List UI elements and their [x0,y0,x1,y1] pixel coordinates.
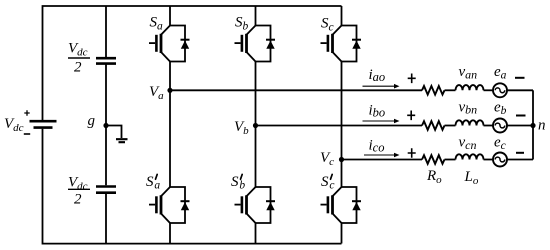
wire neutral rail [532,90,534,159]
svg-text:ea: ea [494,64,507,82]
svg-text:Sb: Sb [235,14,249,32]
wire [507,89,533,91]
svg-text:vcn: vcn [459,135,477,152]
wire leg c lower [341,223,343,244]
wire [484,159,494,161]
svg-text:Va: Va [149,84,164,102]
svg-text:S: S [321,174,329,190]
svg-text:c: c [329,180,334,192]
transistor Sc [321,26,362,62]
svg-text:Vb: Vb [234,119,249,137]
svg-text:Sc: Sc [321,15,334,33]
svg-text:ico: ico [369,138,385,155]
inductor Lo phase b [456,120,484,125]
node Va [167,88,172,93]
battery minus sign [24,133,30,135]
resistor Ro phase c [422,155,445,164]
svg-text:a: a [154,180,160,192]
wire [445,125,456,127]
wire [484,125,494,127]
svg-text:S: S [146,174,154,190]
wire leg b middle [255,62,257,188]
ground [116,139,128,142]
fraction bar Vdc/2 bottom [68,188,90,190]
wire to ground [106,126,122,139]
svg-text:n: n [538,118,546,134]
svg-text:ec: ec [494,135,506,153]
wire top DC bus [43,6,342,120]
resistor Ro phase b [422,121,445,130]
svg-text:Sa: Sa [150,14,164,32]
capacitor C2 top plate [96,185,116,188]
svg-text:Vdc: Vdc [4,116,24,134]
wire [445,159,456,161]
wire phase c [342,159,423,161]
plus sign phase c [408,148,416,158]
svg-text:S: S [231,174,239,190]
wire bottom DC bus [43,129,342,244]
transistor Sb [235,26,276,62]
wire [484,89,494,91]
wire phase b [256,125,423,127]
svg-text:Vc: Vc [320,150,334,168]
node Vb [253,123,258,128]
wire leg a middle [169,62,171,188]
AC source ea [493,83,507,97]
transistor Sa' [149,187,190,223]
current arrow ico [364,154,394,156]
wire capacitor rail [105,6,107,244]
svg-text:g: g [88,113,96,129]
battery Vdc plate long [30,120,57,123]
wire leg c upper [341,6,343,26]
wire leg a upper [169,6,171,26]
svg-text:2: 2 [74,191,82,207]
transistor Sa [149,26,190,62]
transistor Sc' [321,187,362,223]
wire [445,89,456,91]
svg-text:Lo: Lo [464,169,479,187]
wire leg b upper [255,6,257,26]
node n [530,123,535,128]
wire leg a lower [169,223,171,244]
fraction bar Vdc/2 top [68,57,90,59]
minus sign phase a [515,77,525,79]
inductor Lo phase a [456,85,484,90]
current arrow iao [363,85,395,87]
wire leg c middle [341,62,343,188]
transistor Sb' [235,187,276,223]
inductor Lo phase c [456,154,484,159]
svg-text:Vdc: Vdc [68,41,88,59]
svg-text:Vdc: Vdc [68,174,88,192]
wire leg b lower [255,223,257,244]
capacitor C2 bottom plate [96,191,116,194]
wire phase a [170,89,422,91]
svg-text:2: 2 [74,60,82,76]
minus sign phase b [516,115,526,117]
svg-text:van: van [459,64,478,81]
resistor Ro phase a [422,86,445,95]
battery Vdc plate short [34,126,53,129]
battery plus sign [24,110,29,116]
svg-text:vbn: vbn [459,99,478,116]
svg-text:Ro: Ro [426,168,442,186]
plus sign phase a [408,74,416,84]
wire [507,125,533,127]
capacitor C1 top plate [96,57,116,60]
AC source ec [493,153,507,167]
wire [507,159,533,161]
svg-text:ibo: ibo [369,102,386,119]
svg-text:iao: iao [369,67,386,84]
current arrow ibo [363,120,395,122]
node g [103,123,108,128]
capacitor C1 bottom plate [96,62,116,65]
svg-text:b: b [239,180,245,192]
node Vc [339,157,344,162]
plus sign phase b [407,111,415,121]
minus sign phase c [516,152,524,154]
AC source eb [493,119,507,133]
svg-text:eb: eb [494,99,507,117]
